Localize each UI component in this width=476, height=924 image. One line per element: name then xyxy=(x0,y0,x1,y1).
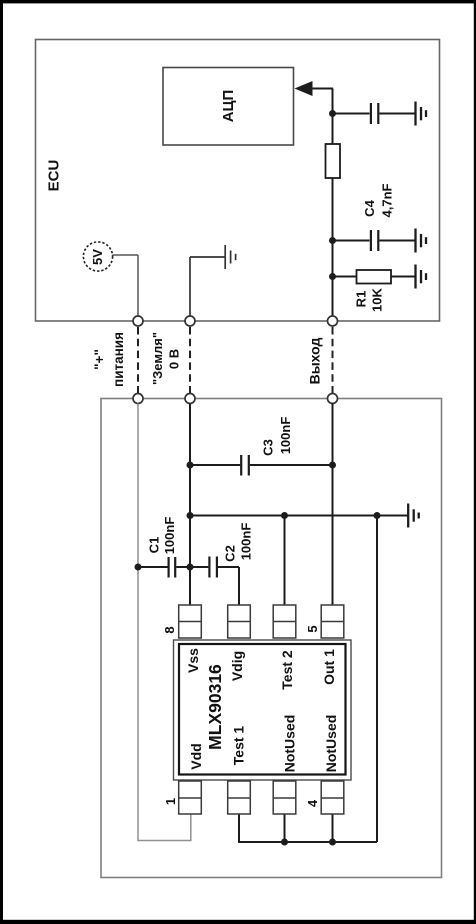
svg-text:4: 4 xyxy=(305,799,320,807)
svg-text:C1: C1 xyxy=(147,537,162,554)
svg-text:4,7nF: 4,7nF xyxy=(380,183,395,217)
svg-text:Out 1: Out 1 xyxy=(321,649,337,685)
svg-text:Test 1: Test 1 xyxy=(231,726,247,766)
svg-text:Vdig: Vdig xyxy=(229,651,245,681)
svg-text:C2: C2 xyxy=(223,545,238,562)
svg-text:АЦП: АЦП xyxy=(220,90,237,123)
svg-text:Test 2: Test 2 xyxy=(279,650,295,690)
svg-text:NotUsed: NotUsed xyxy=(282,715,298,773)
svg-text:1: 1 xyxy=(163,798,178,805)
svg-text:Vss: Vss xyxy=(185,648,201,673)
svg-text:NotUsed: NotUsed xyxy=(323,715,339,773)
svg-text:C3: C3 xyxy=(261,439,276,456)
svg-text:Выход: Выход xyxy=(307,338,323,385)
svg-text:R1: R1 xyxy=(354,291,369,308)
svg-text:MLX90316: MLX90316 xyxy=(205,664,225,750)
svg-text:100nF: 100nF xyxy=(278,417,293,455)
svg-text:"Земля": "Земля" xyxy=(150,332,165,385)
svg-text:C4: C4 xyxy=(362,199,377,216)
svg-text:5V: 5V xyxy=(90,249,105,265)
svg-text:5: 5 xyxy=(305,625,320,632)
svg-text:0 В: 0 В xyxy=(167,349,182,369)
svg-text:10K: 10K xyxy=(370,287,385,311)
svg-text:"+": "+" xyxy=(92,349,107,370)
svg-text:8: 8 xyxy=(162,626,177,633)
svg-text:питания: питания xyxy=(111,332,126,387)
svg-text:Vdd: Vdd xyxy=(188,743,204,769)
svg-text:100nF: 100nF xyxy=(239,523,254,561)
svg-text:100nF: 100nF xyxy=(162,517,177,555)
svg-text:ECU: ECU xyxy=(46,160,63,192)
